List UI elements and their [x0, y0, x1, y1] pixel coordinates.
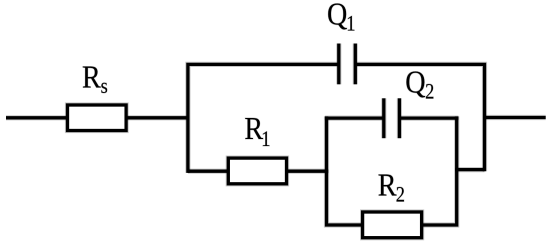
- svg-text:R: R: [82, 59, 102, 95]
- svg-text:Q: Q: [405, 64, 426, 100]
- svg-text:1: 1: [261, 128, 270, 152]
- svg-text:2: 2: [396, 183, 405, 207]
- svg-text:s: s: [101, 75, 108, 99]
- svg-text:Q: Q: [327, 0, 348, 32]
- svg-text:1: 1: [346, 12, 355, 36]
- svg-text:2: 2: [425, 80, 434, 104]
- svg-text:R: R: [378, 167, 398, 203]
